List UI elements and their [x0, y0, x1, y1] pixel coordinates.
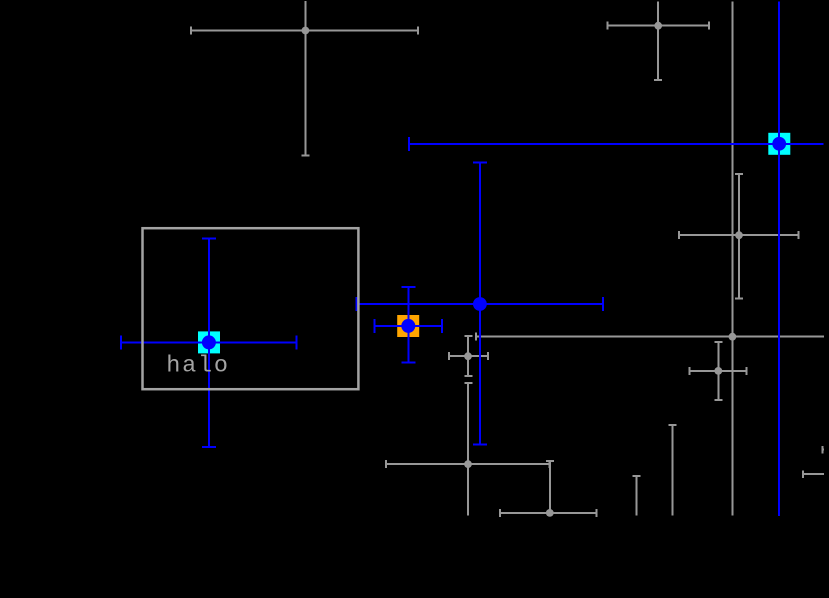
- blue circle N: [202, 335, 216, 349]
- gray dot H: [546, 509, 554, 517]
- orange square marker M: [397, 315, 419, 337]
- blue circle O: [772, 137, 786, 151]
- gray dot G: [464, 460, 472, 468]
- gray errorbar H wires: [500, 461, 596, 517]
- gray errorbar J wire: [669, 425, 677, 516]
- gray errorbar B wires: [607, 2, 709, 80]
- blue errorbar N wires: [121, 238, 297, 447]
- gray dot C: [735, 231, 743, 239]
- gray errorbar K2 wire: [803, 470, 824, 478]
- cyan square marker N: [198, 331, 220, 353]
- gray errorbar I wire: [633, 476, 641, 516]
- gray errorbar D wires: [476, 2, 824, 516]
- blue errorbar L wires: [357, 162, 603, 444]
- blue errorbar M wires: [375, 287, 443, 363]
- gray dot D: [729, 333, 737, 341]
- gray errorbar F wires: [449, 336, 488, 376]
- cyan square marker O: [768, 133, 790, 155]
- svg-text:halo: halo: [166, 352, 230, 379]
- gray dot A: [302, 27, 310, 35]
- gray dot B: [654, 22, 662, 30]
- gray errorbar A wires: [191, 1, 418, 155]
- blue circle M: [401, 319, 415, 333]
- blue errorbar O wires: [409, 2, 824, 516]
- gray dot F: [464, 352, 472, 360]
- gray errorbar E wires: [690, 342, 747, 400]
- gray errorbar G wires: [386, 383, 549, 515]
- blue circle L: [473, 297, 487, 311]
- gray errorbar K1 wire: [823, 446, 824, 454]
- gray errorbar C wires: [679, 174, 799, 299]
- gray dot E: [714, 367, 722, 375]
- halo box: [143, 228, 359, 389]
